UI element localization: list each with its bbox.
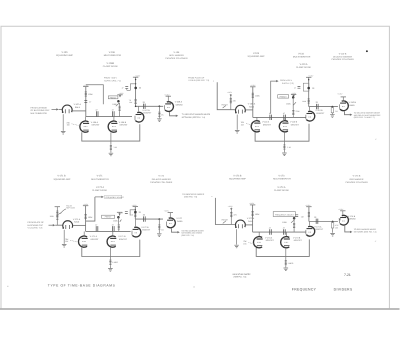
svg-text:6SN7GT: 6SN7GT <box>294 239 303 242</box>
plate wire to follower blk2 <box>309 106 338 108</box>
plate supply tick top blk3 <box>133 206 138 208</box>
svg-text:6AK5: 6AK5 <box>177 220 183 223</box>
coupling capacitor C2 blk4 <box>284 229 286 234</box>
svg-text:1 M: 1 M <box>114 146 118 149</box>
svg-text:CATHODE FOLLOWER: CATHODE FOLLOWER <box>165 57 188 60</box>
FF cathode stem blk2 <box>283 132 285 141</box>
coupling capacitor C2 blk3 <box>113 226 115 231</box>
svg-text:22: 22 <box>143 101 145 104</box>
follower cathode output blk2 <box>345 111 351 115</box>
freq adjust arrow blk3 <box>95 196 102 198</box>
svg-text:(SEE FIG. 7-5): (SEE FIG. 7-5) <box>184 196 198 199</box>
svg-text:+105V: +105V <box>227 91 233 94</box>
cathode rail blk3 <box>82 240 140 257</box>
svg-text:+105V: +105V <box>164 210 170 213</box>
pot dot blk3 <box>117 216 120 219</box>
ground under rail blk1 <box>109 153 114 156</box>
junction dots plate blk1 <box>135 79 136 80</box>
FF cathode stem blk3 <box>109 247 111 256</box>
svg-text:V-108: V-108 <box>174 51 180 54</box>
plate box component blk2 <box>303 83 309 91</box>
bus wire blk1 <box>86 116 132 118</box>
svg-text:+105V: +105V <box>291 92 297 95</box>
preset pot arrow blk3 <box>58 213 61 215</box>
tube V-171A FF <box>78 236 87 247</box>
plate wire to follower blk3 <box>135 218 163 220</box>
svg-text:6SN7GT: 6SN7GT <box>315 228 324 231</box>
pot dot blk2 <box>292 96 295 99</box>
tube V-171B FF <box>107 236 116 247</box>
svg-text:47: 47 <box>283 227 285 230</box>
junction dot follower grid blk1 <box>159 105 161 107</box>
svg-text:6AL5: 6AL5 <box>75 106 81 109</box>
bus wire blk3 <box>86 230 131 232</box>
plate stem V-172B <box>135 219 137 226</box>
tube V-173A FF <box>253 237 262 248</box>
plate vertical blk3 <box>134 207 136 220</box>
svg-text:TO NEGATIVE MARKER MIXER: TO NEGATIVE MARKER MIXER <box>182 113 211 116</box>
grid vertical blk2 <box>252 87 254 118</box>
svg-text:22: 22 <box>316 101 318 104</box>
svg-text:V-106 B: V-106 B <box>119 121 127 124</box>
svg-text:V-171 B: V-171 B <box>57 175 66 178</box>
tube V-173B FF <box>281 237 290 248</box>
junction dot plate wire blk1 <box>135 106 137 108</box>
grid resistor box blk4 <box>332 221 334 224</box>
follower supply tick blk1 <box>166 95 171 97</box>
cathode stem gnd blk3 <box>63 230 65 244</box>
svg-text:CATHODE FOLLOWER: CATHODE FOLLOWER <box>331 58 354 61</box>
svg-text:TYPE OF TIME-BASE DIAGRAMS: TYPE OF TIME-BASE DIAGRAMS <box>48 284 116 288</box>
preset box blk3 <box>102 215 115 218</box>
plate wire to follower blk4 <box>309 221 338 223</box>
svg-text:V-171 B: V-171 B <box>118 235 126 238</box>
svg-text:V-174 B: V-174 B <box>348 215 356 218</box>
svg-text:V-171 A: V-171 A <box>73 218 81 221</box>
junction dot follower grid blk3 <box>158 218 160 220</box>
plate vertical blk4 <box>308 207 310 222</box>
svg-text:6SN7GT: 6SN7GT <box>316 112 325 115</box>
coupling capacitor C1 blk4 <box>270 229 272 234</box>
feed bracket blk2 <box>217 82 235 110</box>
svg-text:V-174 A: V-174 A <box>277 186 286 189</box>
bypass capacitor blk4 <box>295 215 298 217</box>
grid resistor 1K blk1 <box>158 106 160 111</box>
svg-text:CLAMP DIODE: CLAMP DIODE <box>296 66 312 69</box>
svg-text:V-110 B: V-110 B <box>339 52 347 55</box>
bypass bracket blk3 <box>130 210 135 216</box>
svg-text:6SN7GT: 6SN7GT <box>92 124 101 127</box>
svg-text:6AL5: 6AL5 <box>249 105 255 108</box>
svg-text:+105V: +105V <box>305 204 311 207</box>
svg-text:V-172: V-172 <box>176 217 182 220</box>
svg-text:FREQUENCY ADJUST: FREQUENCY ADJUST <box>106 196 125 199</box>
resistor 100K blk2 <box>252 92 254 98</box>
svg-text:47: 47 <box>95 109 97 112</box>
wire vertical grid-leak blk1 <box>85 87 87 117</box>
resistor 100K blk3 <box>85 214 87 220</box>
ground follower blk4 <box>330 233 335 236</box>
svg-text:FREQUENCY DIVIDERS: FREQUENCY DIVIDERS <box>292 287 353 291</box>
svg-text:PRESET: PRESET <box>110 96 117 99</box>
resistor 100K blk4 <box>252 211 254 217</box>
follower cathode output blk1 <box>170 112 177 116</box>
svg-text:RED MARKER: RED MARKER <box>350 178 364 181</box>
grid cap marks blk4 <box>339 218 341 220</box>
svg-text:6SN7GT: 6SN7GT <box>142 229 151 232</box>
tube V-110B FF <box>279 121 288 132</box>
svg-text:V-173 A: V-173 A <box>265 236 273 239</box>
pot resistor blk1 <box>119 103 121 105</box>
preset box blk1 <box>108 96 118 99</box>
svg-text:SUPPLY (7-2): SUPPLY (7-2) <box>282 82 294 85</box>
grid stem left FF blk2 <box>256 117 258 120</box>
pot resistor blk3 <box>118 217 120 224</box>
divider resistor 47K blk2 <box>230 97 232 110</box>
svg-text:DELAYED MARKER: DELAYED MARKER <box>333 55 353 58</box>
svg-text:+105V: +105V <box>132 204 138 207</box>
svg-text:MULTIVIBRATOR: MULTIVIBRATOR <box>91 178 109 181</box>
tube V-108A follower <box>165 102 174 112</box>
svg-text:DELAYED MARKER: DELAYED MARKER <box>152 178 172 181</box>
svg-text:100K: 100K <box>88 216 93 219</box>
svg-text:7-21: 7-21 <box>344 273 351 277</box>
preset supply tick blk1 <box>117 94 122 96</box>
svg-text:47: 47 <box>269 227 271 230</box>
svg-text:47: 47 <box>121 212 123 215</box>
freq adjust bracket blk3 <box>86 197 95 221</box>
svg-text:+105V: +105V <box>249 202 255 205</box>
svg-text:FROM +105 V: FROM +105 V <box>280 79 293 82</box>
svg-text:SQUARING AMP: SQUARING AMP <box>229 178 246 181</box>
svg-text:1 MEG: 1 MEG <box>112 261 118 264</box>
svg-text:+105V: +105V <box>250 84 256 87</box>
svg-text:6SN7GT: 6SN7GT <box>291 123 300 126</box>
ground under V-173A <box>234 245 239 248</box>
svg-text:V-173 A: V-173 A <box>247 217 255 220</box>
svg-text:V-173: V-173 <box>278 174 285 177</box>
svg-text:V-172 B: V-172 B <box>141 226 149 229</box>
cathode resistor 1MEG blk4 <box>285 256 287 259</box>
svg-text:100K: 100K <box>255 95 260 98</box>
svg-text:V-110: V-110 <box>298 52 305 55</box>
svg-text:(SEE FIGS. 7-6 AND 7-7): (SEE FIGS. 7-6 AND 7-7) <box>354 116 375 119</box>
tube V-106A <box>80 121 89 132</box>
coupling capacitor C1 blk3 <box>96 226 98 231</box>
series capacitor 22 blk2 <box>317 104 319 109</box>
preset supply arrow blk3 <box>117 211 122 213</box>
ground under rail blk3 <box>108 269 113 272</box>
grid stem right FF blk3 <box>112 231 114 235</box>
grid stem right FF blk4 <box>285 232 287 236</box>
svg-text:22: 22 <box>314 216 316 219</box>
svg-text:V-107 A: V-107 A <box>74 103 82 106</box>
svg-text:+105V: +105V <box>308 75 314 78</box>
junction dots plate blk3 <box>135 209 136 210</box>
series capacitor 22 blk3 <box>144 216 146 221</box>
svg-text:47: 47 <box>95 223 97 226</box>
FF cathode stem blk4 <box>285 248 287 256</box>
tube V-109A <box>235 105 245 113</box>
tube V-174A squarer <box>306 226 315 236</box>
grid supply tick blk3 <box>83 205 88 207</box>
freq adjust label blk3 <box>105 195 122 199</box>
svg-text:47: 47 <box>122 87 124 90</box>
svg-text:6SN7GT: 6SN7GT <box>91 238 100 241</box>
svg-text:150K: 150K <box>286 103 291 106</box>
page border frame <box>1 26 389 308</box>
svg-text:NETWORK (SEE FIG. 7-4): NETWORK (SEE FIG. 7-4) <box>354 231 377 234</box>
svg-text:MULTIVIBRATOR: MULTIVIBRATOR <box>31 112 48 115</box>
svg-text:OF BLOCKING OSC: OF BLOCKING OSC <box>31 109 51 112</box>
wire input to tube V-107A <box>59 108 62 110</box>
svg-text:BLOCKING OSC: BLOCKING OSC <box>28 224 44 227</box>
plate supply tick top blk4 <box>306 206 311 208</box>
coupling capacitor C1 blk1 <box>96 111 98 116</box>
svg-text:V-173 B: V-173 B <box>293 236 301 239</box>
ground follower blk2 <box>330 115 335 118</box>
follower cathode output blk3 <box>172 228 178 232</box>
svg-text:FROM +105 V: FROM +105 V <box>104 77 118 80</box>
svg-text:V-110 B: V-110 B <box>315 109 323 112</box>
svg-text:6AL5: 6AL5 <box>248 220 254 223</box>
svg-text:MULTIVIBRATOR: MULTIVIBRATOR <box>293 55 311 58</box>
cathode rail blk1 <box>82 124 140 141</box>
svg-text:150K: 150K <box>282 221 287 224</box>
preset box blk2 <box>278 95 289 98</box>
plate stem V-174A <box>309 222 311 226</box>
tube V-110A FF <box>251 121 260 132</box>
plate resistor blk1 <box>135 98 137 104</box>
svg-text:FROM PLATE OF: FROM PLATE OF <box>28 221 45 224</box>
cathode ground stem blk2 <box>236 115 238 130</box>
svg-text:V-110 A: V-110 A <box>300 63 308 66</box>
svg-text:6AK5W: 6AK5W <box>176 103 183 106</box>
plate supply tick blk1 <box>83 86 88 88</box>
wire V-107A to grid node <box>73 110 86 112</box>
pot dot blk4 <box>293 217 296 220</box>
svg-text:1W: 1W <box>335 226 338 229</box>
svg-text:SQUARING AMP: SQUARING AMP <box>56 54 73 57</box>
grid stem right FF blk1 <box>113 117 115 121</box>
plate resistor blk4 <box>308 212 310 218</box>
coupling capacitor C2 blk1 <box>113 111 115 116</box>
svg-text:REP. RATE: REP. RATE <box>66 207 75 210</box>
grid stem left FF blk1 <box>85 117 87 121</box>
series capacitor 22 blk4 <box>316 219 318 224</box>
wire V-173A to grid node blk4 <box>246 224 253 226</box>
ground follower blk1 <box>157 119 162 122</box>
coupling capacitor C1 blk2 <box>270 115 272 120</box>
svg-text:CLAMP DIODE: CLAMP DIODE <box>274 189 290 192</box>
svg-text:V-173 B: V-173 B <box>233 174 242 177</box>
svg-text:+105V: +105V <box>338 208 344 211</box>
grid stem right FF blk2 <box>284 117 286 120</box>
ground under V-107A <box>61 131 66 134</box>
svg-text:22: 22 <box>139 87 141 90</box>
plate vertical blk1 <box>135 77 137 106</box>
svg-text:V-105: V-105 <box>61 51 68 54</box>
bypass capacitor blk2 <box>298 86 301 88</box>
grid stem left FF blk4 <box>258 232 260 236</box>
svg-text:MULTIVIBRATOR: MULTIVIBRATOR <box>104 54 122 57</box>
svg-text:SQUARING AMP: SQUARING AMP <box>248 55 265 58</box>
tube V-107A <box>62 105 72 113</box>
svg-text:V-171 A: V-171 A <box>90 235 98 238</box>
cathode rail blk2 <box>255 124 309 141</box>
svg-text:V-106: V-106 <box>109 51 116 54</box>
svg-text:FREQUENCY ADJUST: FREQUENCY ADJUST <box>275 214 295 217</box>
grid vertical blk3 <box>85 206 87 232</box>
svg-text:1 M: 1 M <box>287 146 291 149</box>
svg-text:V-174 B: V-174 B <box>353 175 361 178</box>
pot dot blk1 <box>117 100 120 103</box>
svg-text:(SEE FIG. 7-5): (SEE FIG. 7-5) <box>234 275 247 278</box>
bypass capacitor blk3 <box>125 212 128 214</box>
plate resistor blk2 <box>308 98 310 104</box>
svg-text:V-106 A: V-106 A <box>91 121 99 124</box>
series capacitor 22 blk1 <box>144 104 146 109</box>
input arrow blk1 <box>52 108 57 110</box>
svg-text:6SN7GT: 6SN7GT <box>143 112 152 115</box>
svg-text:22: 22 <box>143 214 145 217</box>
ground under rail blk4 <box>284 268 289 271</box>
grid resistor 1K blk3 <box>158 219 160 224</box>
svg-text:6AK5: 6AK5 <box>350 104 356 107</box>
svg-text:NETWORK (SEE FIG. 7-4): NETWORK (SEE FIG. 7-4) <box>182 116 206 119</box>
svg-text:CATHODE FOLLOWER: CATHODE FOLLOWER <box>345 181 368 184</box>
grid stem left FF blk3 <box>83 231 85 235</box>
svg-text:6SN7GT: 6SN7GT <box>119 238 128 241</box>
svg-text:SUPPLY (FIG. 7-2): SUPPLY (FIG. 7-2) <box>104 79 121 82</box>
ground follower blk3 <box>157 234 162 237</box>
svg-text:FROM PLATE OF: FROM PLATE OF <box>188 76 205 79</box>
plate stem V-110B sq <box>309 107 311 111</box>
svg-text:150K: 150K <box>113 219 118 222</box>
pot wiper arrow blk2 <box>293 102 296 105</box>
ground under V-171A <box>62 244 67 247</box>
ground under rail blk2 <box>282 153 287 156</box>
wire cathode V-107A down <box>62 114 64 131</box>
svg-text:6SN7GT: 6SN7GT <box>266 239 275 242</box>
input arrow blk3 <box>49 224 54 226</box>
svg-text:+105V: +105V <box>119 92 125 95</box>
svg-text:+105V: +105V <box>228 205 234 208</box>
feed bracket blk3 to blk4 <box>215 198 235 225</box>
svg-text:V-121 (FIG. 7-2): V-121 (FIG. 7-2) <box>28 226 43 229</box>
grid supply tick blk2 <box>250 86 255 88</box>
cathode resistor 1MEG blk3 <box>109 257 111 260</box>
svg-text:FROM CATHODE: FROM CATHODE <box>31 107 48 110</box>
svg-text:+105V: +105V <box>135 74 141 77</box>
svg-text:47: 47 <box>112 109 114 112</box>
tube V-110B follower <box>340 101 349 111</box>
svg-text:1M: 1M <box>301 216 304 219</box>
svg-text:+105V: +105V <box>83 203 89 206</box>
svg-text:V-107 B: V-107 B <box>142 109 150 112</box>
tube V-107B <box>135 112 144 122</box>
svg-text:V-172: V-172 <box>158 175 164 178</box>
svg-text:6SN7GT: 6SN7GT <box>263 123 272 126</box>
tube V-106B <box>108 121 117 132</box>
tube V-173A diode <box>235 220 245 228</box>
follower supply tick blk3 <box>168 212 173 214</box>
wire input to tube V-171A <box>55 224 62 226</box>
plate supply tick top blk2 <box>306 76 311 78</box>
tube V-172 follower <box>167 218 176 228</box>
svg-text:V-109: V-109 <box>253 52 260 55</box>
resistor 100K blk1 <box>85 91 87 97</box>
svg-text:CLAMP DIODE: CLAMP DIODE <box>103 65 119 68</box>
follower supply tick blk4 <box>340 210 345 212</box>
tube V-110B squarer <box>306 111 315 121</box>
FF cathode stem blk1 <box>110 132 112 141</box>
svg-text:1 MEG: 1 MEG <box>288 262 294 265</box>
svg-text:V-174 A: V-174 A <box>314 225 322 228</box>
svg-text:6SN7GT: 6SN7GT <box>120 124 129 127</box>
svg-text:100K: 100K <box>255 213 260 216</box>
svg-text:MULTIVIBRATOR: MULTIVIBRATOR <box>273 178 291 181</box>
page bottom edge shadow <box>0 308 400 310</box>
svg-text:+105V: +105V <box>83 84 89 87</box>
cathode ground stem blk4 <box>236 229 238 244</box>
preset pot resistor blk3 <box>56 207 58 211</box>
svg-text:V-106B: V-106B <box>107 62 115 65</box>
tube V-171A diode <box>62 221 72 229</box>
svg-text:V-108 A: V-108 A <box>175 101 183 104</box>
svg-text:PRESET: PRESET <box>280 96 288 99</box>
svg-text:22: 22 <box>312 87 314 90</box>
ground under V-109A <box>235 130 240 133</box>
svg-text:V-106 B (SEE FIG. 7-3): V-106 B (SEE FIG. 7-3) <box>188 79 209 82</box>
capacitor PIP blk1 <box>84 101 87 103</box>
svg-text:100K: 100K <box>88 93 93 96</box>
grid supply tick blk4 <box>250 204 255 206</box>
coupling capacitor C2 blk2 <box>284 115 286 120</box>
svg-text:PRESET: PRESET <box>105 216 112 219</box>
divider resistor 47K blk4 <box>230 210 232 224</box>
svg-text:NEG. MARKER: NEG. MARKER <box>169 54 184 57</box>
plate stem V-107B <box>138 106 140 111</box>
supply feed bracket blk1 <box>86 85 104 105</box>
svg-text:SQUARING AMP: SQUARING AMP <box>53 178 70 181</box>
cathode resistor 1M blk2 <box>283 141 285 144</box>
bypass capacitor blk1 <box>125 87 128 89</box>
svg-text:CLAMP DIODE: CLAMP DIODE <box>92 189 108 192</box>
grid vertical blk4 <box>252 205 254 232</box>
pot resistor blk2 <box>292 97 294 109</box>
cathode resistor 1M blk1 <box>110 141 112 144</box>
junction dot follower grid blk4 <box>332 221 334 223</box>
wire V-171A to grid node <box>73 224 86 226</box>
svg-text:47: 47 <box>294 87 296 90</box>
pot wiper arrow blk1 <box>116 103 120 106</box>
pot resistor blk4 <box>293 218 295 222</box>
wire V-109A to grid node blk2 <box>246 109 253 111</box>
pot wiper arrow blk4 <box>291 220 294 223</box>
bus wire blk2 <box>253 116 306 118</box>
plate vertical blk2 <box>308 77 310 106</box>
tube V-172B squarer <box>132 227 141 237</box>
preset pot leader blk3 <box>61 209 66 214</box>
bypass bracket blk1 <box>130 84 135 91</box>
plate wire to follower blk1 <box>136 105 164 107</box>
svg-text:V-109 A: V-109 A <box>248 103 256 106</box>
svg-text:47: 47 <box>112 223 114 226</box>
svg-text:V-110 A: V-110 A <box>262 121 270 124</box>
svg-text:47: 47 <box>283 112 285 115</box>
junction dot plate blk2 <box>307 87 310 90</box>
